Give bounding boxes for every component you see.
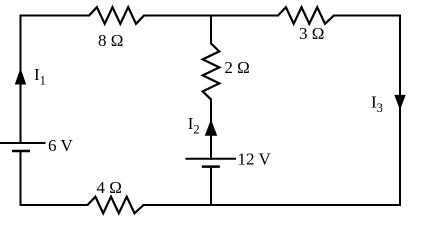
current arrow I3 (395, 95, 405, 108)
current arrow I2 (206, 121, 217, 136)
current arrow I1 (16, 70, 26, 85)
wire middle lower segment (210, 167, 212, 205)
wire left upper segment (20, 16, 22, 144)
svg-text:2 Ω: 2 Ω (224, 58, 249, 77)
wire bottom-left segment (21, 204, 88, 206)
wire middle center segment (210, 99, 212, 158)
wire bottom-right segment (144, 204, 401, 206)
battery 12V short plate (202, 165, 220, 168)
wire top-right segment (334, 15, 400, 17)
svg-text:I2: I2 (188, 114, 200, 137)
svg-text:3 Ω: 3 Ω (299, 24, 324, 43)
resistor 2 ohm (203, 43, 220, 99)
svg-text:I3: I3 (371, 93, 383, 116)
battery 6V long plate (0, 142, 46, 144)
battery 12V long plate (186, 158, 237, 160)
resistor 4 ohm (88, 197, 144, 214)
svg-text:8 Ω: 8 Ω (98, 31, 123, 50)
svg-text:I1: I1 (34, 65, 46, 88)
svg-text:6 V: 6 V (48, 136, 73, 155)
wire top-left segment (21, 15, 90, 17)
svg-text:12 V: 12 V (238, 150, 272, 169)
battery 6V short plate (12, 150, 30, 153)
wire left lower segment (20, 151, 22, 205)
svg-text:4 Ω: 4 Ω (97, 178, 122, 197)
wire middle upper segment (210, 16, 212, 44)
wire top-middle segment (144, 15, 278, 17)
resistor 3 ohm (278, 7, 334, 24)
wire right side (399, 16, 401, 206)
resistor 8 ohm (89, 7, 144, 24)
